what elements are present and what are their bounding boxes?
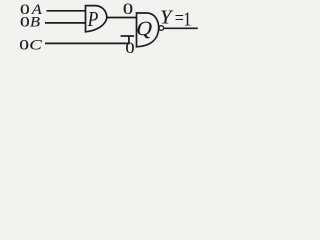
svg-text:0: 0	[19, 36, 29, 52]
Q lower input pin	[121, 35, 135, 37]
wire A to gate P	[47, 10, 86, 12]
svg-text:0: 0	[20, 14, 30, 30]
svg-text:0: 0	[123, 0, 133, 17]
inverter bubble on Q output	[159, 26, 164, 31]
svg-text:Q: Q	[134, 17, 155, 40]
wire P output to gate Q	[107, 17, 136, 19]
wire Q output	[164, 27, 198, 29]
output label Y = 1	[160, 7, 191, 30]
svg-text:=: =	[175, 7, 184, 29]
input label A = 0	[20, 1, 43, 18]
wire B to gate P	[45, 22, 86, 24]
input label C = 0	[19, 36, 43, 53]
svg-text:Y: Y	[160, 8, 174, 29]
riser wire from C up to Q lower input	[128, 36, 130, 44]
svg-text:1: 1	[184, 8, 192, 30]
gate P (AND) body	[86, 6, 107, 32]
input label B = 0	[20, 14, 40, 31]
wire C horizontal	[45, 42, 130, 44]
svg-text:C: C	[29, 37, 43, 53]
gate Q (NAND) body	[137, 13, 159, 47]
svg-text:B: B	[30, 15, 40, 31]
svg-text:0: 0	[125, 39, 134, 54]
svg-text:P: P	[87, 7, 99, 31]
